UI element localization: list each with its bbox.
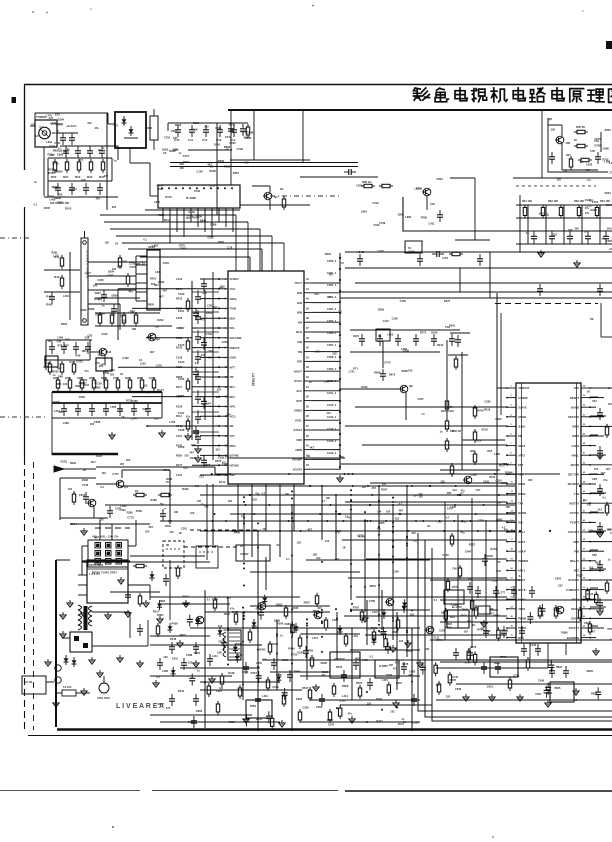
- svg-text:473: 473: [496, 560, 501, 564]
- svg-text:R573: R573: [470, 645, 477, 649]
- capacitor C403: [255, 694, 261, 706]
- capacitor bottom-right extra: [470, 598, 473, 612]
- wire bus into U101 top 2: [104, 221, 248, 223]
- svg-text:222: 222: [126, 458, 131, 462]
- svg-text:102: 102: [413, 538, 418, 542]
- svg-text:HVCC: HVCC: [294, 379, 302, 383]
- svg-text:100: 100: [219, 686, 224, 690]
- svg-text:C876: C876: [594, 137, 601, 141]
- wire right row y218: [516, 217, 612, 219]
- junction dot: [378, 554, 380, 556]
- svg-text:C176: C176: [54, 196, 61, 200]
- optocoupler U302 led square: [74, 636, 79, 641]
- junction U201 left pin26: [506, 637, 508, 639]
- svg-text:VDD2: VDD2: [572, 425, 580, 429]
- capacitor bottom-right extra: [578, 607, 581, 621]
- junction dot bus mid: [459, 494, 461, 496]
- wire right drop x112: [111, 158, 113, 181]
- wire U101 left pin3 feed: [200, 298, 219, 300]
- dashed service box: [196, 546, 218, 568]
- wire arrow line: [64, 468, 96, 470]
- resistor R302: [176, 565, 179, 579]
- svg-text:L596: L596: [162, 669, 168, 673]
- wire bundle h y205 short: [240, 204, 310, 206]
- svg-text:473: 473: [480, 627, 485, 631]
- resistor R503: [554, 605, 557, 619]
- svg-text:C530: C530: [446, 622, 453, 626]
- key cap dark fill 4: [107, 552, 110, 555]
- junction dot: [392, 522, 394, 524]
- svg-text:C734: C734: [206, 332, 213, 336]
- junction dot: [364, 511, 366, 513]
- junction dot extra: [455, 485, 457, 487]
- capacitor C91 U101 left: [195, 312, 201, 324]
- svg-text:D516: D516: [170, 637, 177, 641]
- svg-text:1K: 1K: [580, 160, 583, 164]
- IC U201 left pin 2: [507, 397, 516, 399]
- capacitor bottom extra: [207, 683, 210, 697]
- junction dot extra: [326, 520, 328, 522]
- junction dot bus mid: [249, 494, 251, 496]
- svg-text:R555: R555: [294, 669, 301, 673]
- wire U201 left conn 11: [344, 615, 507, 617]
- svg-text:C809: C809: [584, 621, 591, 625]
- wire into IF box: [107, 113, 109, 124]
- border: top frame line: [24, 84, 612, 86]
- svg-text:100: 100: [228, 500, 233, 503]
- wire vertical mid-right x486: [485, 520, 487, 636]
- capacitor C234 row: [431, 334, 437, 346]
- svg-text:C742: C742: [225, 135, 232, 139]
- svg-text:R481: R481: [165, 524, 172, 528]
- junction dot: [392, 555, 394, 557]
- svg-text:C216 .1: C216 .1: [327, 451, 337, 455]
- wire U101 left pin21 feed: [200, 474, 219, 476]
- resistor R409: [360, 609, 363, 623]
- junction U201 left pin1: [506, 397, 508, 399]
- IC U201 left pin 25: [507, 617, 516, 619]
- svg-text:R417: R417: [153, 610, 160, 614]
- component box FB1: [376, 329, 390, 341]
- IC U101 right pin 25 stub: [304, 311, 313, 313]
- svg-text:4K7: 4K7: [150, 350, 155, 354]
- svg-text:100: 100: [574, 227, 579, 231]
- junction dot extra: [513, 530, 515, 532]
- wire U101 pin23 to bus: [313, 292, 340, 294]
- junction dot bottom: [257, 666, 259, 668]
- svg-text:1K: 1K: [83, 468, 86, 472]
- IC U201 right pin 28: [581, 387, 590, 389]
- transistor Q2: [147, 333, 156, 341]
- svg-text:0.1: 0.1: [40, 125, 44, 129]
- wire x266 to driver: [265, 557, 267, 590]
- svg-text:D649: D649: [247, 131, 254, 135]
- svg-text:VDD: VDD: [296, 438, 302, 442]
- junction dot extra: [268, 504, 270, 506]
- svg-text:C11: C11: [188, 138, 194, 142]
- svg-text:C447: C447: [447, 507, 454, 511]
- wire J1-U4 h3: [88, 289, 136, 291]
- svg-text:222: 222: [332, 352, 337, 356]
- resistor R421: [216, 701, 219, 715]
- svg-text:SETVCO: SETVCO: [568, 415, 579, 419]
- junction dot bottom: [306, 618, 308, 620]
- svg-text:100: 100: [216, 395, 221, 399]
- svg-text:0.1: 0.1: [602, 236, 606, 240]
- box around Q8 cluster: [548, 118, 608, 172]
- svg-text:D897: D897: [194, 651, 201, 655]
- capacitor bottom extra: [191, 716, 197, 728]
- capacitor bottom extra: [338, 705, 341, 719]
- wire bus x340 vertical: [339, 253, 341, 470]
- svg-text:100: 100: [551, 127, 556, 131]
- svg-text:R43: R43: [48, 339, 53, 343]
- svg-text:47u: 47u: [263, 657, 268, 661]
- svg-text:103: 103: [95, 196, 100, 200]
- svg-text:BLKD: BLKD: [518, 597, 526, 601]
- IC U101 left pin 14 stub: [219, 405, 228, 407]
- IC U101 left pin 18 stub: [219, 445, 228, 447]
- arrow marker degauss: [54, 466, 64, 472]
- svg-text:L731: L731: [349, 369, 355, 373]
- IC U101 right pin 30 stub: [304, 360, 313, 362]
- svg-text:0.1: 0.1: [596, 560, 600, 564]
- resistor R310: [156, 623, 159, 637]
- junction dot extra: [475, 513, 477, 515]
- svg-text:4K7: 4K7: [91, 460, 96, 464]
- capacitor bottom extra: [315, 593, 318, 607]
- svg-text:NVCL: NVCL: [572, 453, 580, 457]
- wire y178-475 corner: [450, 177, 475, 179]
- wire vertical drop x244: [243, 514, 245, 560]
- svg-text:DEO: DEO: [230, 444, 237, 448]
- wire AC link: [46, 681, 54, 683]
- svg-text:R762: R762: [183, 160, 190, 164]
- svg-text:C75: C75: [95, 361, 100, 365]
- junction dot bottom: [242, 683, 244, 685]
- svg-text:R827: R827: [180, 633, 187, 637]
- capacitor C416: [169, 642, 175, 654]
- IC U101 left pin 10 stub: [219, 366, 228, 368]
- svg-text:1K: 1K: [587, 389, 590, 393]
- wire extra rail y682: [200, 681, 280, 683]
- junction dot extra: [454, 504, 456, 506]
- wire U4 pin 2: [136, 264, 147, 266]
- svg-text:PWM0: PWM0: [518, 617, 527, 621]
- wire box inner stub: [124, 137, 138, 139]
- flyback transformer T302 body: [228, 630, 241, 660]
- wire J1-U4 h2: [88, 275, 136, 277]
- junction dot extra: [352, 473, 354, 475]
- wire C95 link: [197, 390, 199, 392]
- svg-text:DEG: DEG: [70, 461, 77, 465]
- wire U201 pin16 right run: [590, 541, 612, 543]
- wire long y252: [345, 251, 612, 253]
- svg-text:C63: C63: [55, 112, 60, 116]
- wire vert link row x600: [599, 205, 601, 244]
- ground G72: [597, 608, 603, 615]
- connector J1 pin2 circle: [83, 319, 87, 323]
- svg-text:L515: L515: [382, 678, 388, 682]
- wire U101 long feed 2: [146, 337, 192, 339]
- wire bus into U101 top 4: [116, 235, 272, 237]
- capacitor bottom extra: [157, 600, 162, 610]
- junction dot bottom: [276, 635, 278, 637]
- svg-text:0.1: 0.1: [602, 496, 606, 500]
- transistor Q21: [257, 602, 266, 610]
- capacitor bottom-right extra: [497, 627, 500, 641]
- junction dot extra: [411, 485, 413, 487]
- wire h y467 ext: [96, 466, 215, 468]
- wire vrail x292: [291, 600, 293, 731]
- svg-text:222: 222: [553, 232, 558, 236]
- wire bus y197: [44, 196, 118, 198]
- wire U101 left pin9 feed: [200, 356, 219, 358]
- junction dot extra: [370, 520, 372, 522]
- svg-text:C85: C85: [592, 553, 597, 557]
- svg-text:TVIN: TVIN: [230, 307, 236, 311]
- wire U201 right conn 4: [590, 473, 598, 475]
- svg-text:R97: R97: [64, 344, 69, 348]
- wire U101 bottom pin run x280: [279, 495, 281, 557]
- capacitor bottom extra: [420, 663, 426, 675]
- ground symbol: [81, 610, 87, 617]
- svg-text:10K: 10K: [447, 491, 452, 495]
- wire rail y597: [150, 596, 300, 598]
- junction U201 left pin15: [506, 531, 508, 533]
- junction dot extra: [319, 513, 321, 515]
- svg-text:R174: R174: [157, 388, 164, 392]
- IC U101 right pin 24 stub: [304, 302, 313, 304]
- wire U101 left pin19 feed: [200, 454, 219, 456]
- svg-text:D547: D547: [95, 313, 102, 317]
- wire U201 pin21 right run: [590, 589, 604, 591]
- svg-text:V.DRV: V.DRV: [240, 552, 249, 556]
- junction dot extra: [288, 473, 290, 475]
- svg-text:10K: 10K: [312, 552, 317, 556]
- ground symbol power zone: [105, 612, 111, 619]
- svg-text:C362: C362: [207, 304, 214, 308]
- junction dot bottom: [227, 664, 229, 666]
- svg-text:0.1: 0.1: [168, 519, 172, 523]
- svg-text:SEARCH: SEARCH: [568, 482, 579, 486]
- title text: 彩色电视机电路电原理图 (hand-drawn strokes): [414, 88, 612, 102]
- svg-text:1n: 1n: [608, 386, 611, 390]
- junction dot: [291, 608, 293, 610]
- svg-text:103: 103: [68, 487, 73, 491]
- svg-text:R124: R124: [489, 475, 496, 479]
- svg-text:R264: R264: [590, 208, 597, 212]
- junction on x340 bus 6: [339, 323, 341, 325]
- svg-text:R825: R825: [591, 691, 598, 695]
- capacitor bottom-right extra: [446, 578, 449, 592]
- wire feed rail x118: [117, 289, 119, 340]
- svg-text:C588: C588: [186, 653, 193, 657]
- wire U101 left pin5 feed: [200, 317, 219, 319]
- svg-text:C61: C61: [430, 202, 435, 206]
- svg-text:R68: R68: [56, 382, 61, 386]
- capacitor C70b: [467, 582, 473, 594]
- wire v x170 drop: [169, 470, 171, 524]
- scan speck bottom: [112, 826, 114, 828]
- flyback T302 hatch: [229, 632, 240, 634]
- wire lc v x90: [89, 340, 91, 360]
- wire Q3 emitter drop: [104, 356, 106, 365]
- IC U201 right pin 31: [581, 416, 590, 418]
- resistor R414: [266, 677, 269, 691]
- junction dot extra: [307, 520, 309, 522]
- svg-text:C576: C576: [328, 722, 335, 726]
- svg-text:C409: C409: [122, 356, 129, 360]
- key cap dark fill 8: [117, 560, 120, 563]
- diode D1 in box: [122, 116, 127, 126]
- junction U201 left pin16: [506, 541, 508, 543]
- transistor Q8: [555, 136, 564, 144]
- wire U201 pin18 right run: [590, 560, 596, 562]
- svg-text:R692: R692: [182, 594, 189, 598]
- svg-text:47u: 47u: [84, 369, 89, 373]
- junction U201 left pin20: [506, 579, 508, 581]
- wire y458 mid: [230, 457, 345, 459]
- junction dot: [350, 489, 352, 491]
- junction dot extra: [300, 530, 302, 532]
- svg-text:473: 473: [183, 466, 188, 470]
- wire opto stubs: [62, 637, 70, 639]
- wire U101 long feed 4: [132, 396, 192, 398]
- resistor R420: [328, 709, 331, 723]
- svg-text:222: 222: [104, 369, 109, 373]
- svg-text:D386: D386: [88, 307, 95, 311]
- wire U201 left conn 8: [366, 558, 507, 560]
- junction U201 left pin12: [506, 502, 508, 504]
- svg-text:1n: 1n: [34, 180, 37, 184]
- keyboard block outline: [88, 540, 128, 567]
- capacitor C252: [417, 254, 423, 266]
- isolation barrier line 2: [425, 540, 612, 717]
- svg-text:D248: D248: [229, 123, 236, 127]
- wire br y580: [430, 579, 520, 581]
- junction dot: [406, 629, 408, 631]
- svg-text:VIF: VIF: [230, 375, 235, 379]
- junction U201 left pin2: [506, 406, 508, 408]
- wire bus y418: [52, 417, 162, 419]
- capacitor bottom extra: [262, 595, 267, 605]
- svg-text:C707: C707: [85, 271, 92, 275]
- svg-text:0.1: 0.1: [434, 598, 438, 602]
- junction dot: [378, 584, 380, 586]
- svg-text:R417: R417: [244, 135, 251, 139]
- svg-text:C86: C86: [85, 336, 90, 340]
- resistor R63 ladder top: [92, 377, 95, 391]
- connector box AV1: [96, 358, 112, 371]
- capacitor C334: [603, 232, 609, 244]
- svg-text:C236: C236: [442, 553, 449, 557]
- junction dot bus mid: [279, 530, 281, 532]
- svg-text:L310: L310: [262, 694, 268, 698]
- svg-text:104: 104: [169, 531, 174, 534]
- wire long y283: [355, 282, 612, 284]
- keyboard under-bar: [82, 560, 130, 562]
- wire tuner top: [35, 112, 108, 114]
- svg-text:D333: D333: [296, 697, 303, 701]
- svg-text:VIF2: VIF2: [518, 473, 524, 477]
- svg-text:RIN: RIN: [297, 291, 302, 295]
- svg-text:C766: C766: [369, 599, 376, 603]
- svg-text:4K7: 4K7: [154, 283, 159, 287]
- junction dot extra: [453, 520, 455, 522]
- junction dot bus mid: [339, 513, 341, 515]
- svg-text:HOUT: HOUT: [294, 369, 302, 373]
- svg-text:C538: C538: [455, 687, 462, 691]
- wire U101 left pin1 feed: [200, 278, 219, 280]
- svg-text:C256: C256: [356, 183, 363, 187]
- border: inner left frame line (dashed): [33, 462, 35, 730]
- IC U101 left pin 1 stub: [219, 278, 228, 280]
- svg-text:D448: D448: [228, 671, 235, 675]
- IC U101 right pin 29 stub: [304, 351, 313, 353]
- svg-text:10K: 10K: [193, 128, 198, 132]
- svg-text:VSYNC: VSYNC: [230, 454, 240, 458]
- capacitor bottom-right extra: [527, 612, 533, 624]
- capacitor Ctl0: [63, 146, 69, 158]
- svg-text:D578: D578: [215, 459, 222, 463]
- border: page bottom rule right: [345, 790, 612, 792]
- wire h y518: [60, 517, 108, 519]
- wire extra rail y604: [160, 603, 230, 605]
- wire Q6 base: [340, 388, 399, 390]
- svg-text:473: 473: [395, 660, 400, 664]
- diode D41: [252, 619, 257, 629]
- svg-text:0.1: 0.1: [195, 361, 199, 365]
- capacitor C10 on y123 bus: [175, 125, 181, 137]
- wire IF pin drop 10: [232, 217, 234, 232]
- wire tuner bottom stub: [43, 147, 45, 158]
- junction dot: [335, 511, 337, 513]
- IC U201 left pin 17: [507, 541, 516, 543]
- svg-text:C101: C101: [176, 326, 183, 330]
- wire power v x148: [147, 620, 149, 646]
- wire heavy vertical x56: [55, 560, 57, 727]
- svg-text:47u: 47u: [255, 492, 260, 495]
- capacitor bottom-right extra: [595, 687, 601, 699]
- capacitor C97 U101 left: [195, 432, 201, 444]
- resistor R45: [118, 255, 121, 269]
- ground symbol power zone: [67, 600, 73, 607]
- junction dot: [257, 607, 259, 609]
- svg-text:SLAVE: SLAVE: [518, 405, 527, 409]
- svg-text:62K: 62K: [101, 376, 106, 380]
- svg-text:R444: R444: [178, 689, 185, 693]
- svg-text:C779: C779: [384, 360, 391, 364]
- capacitor bottom-right extra: [539, 604, 545, 616]
- svg-text:100: 100: [386, 510, 391, 514]
- svg-text:473: 473: [101, 363, 106, 367]
- svg-text:D297: D297: [95, 291, 102, 295]
- wire lc y360: [44, 359, 90, 361]
- wire U201 pin4 right run: [590, 425, 612, 427]
- junction on x340 bus 0: [339, 257, 341, 259]
- svg-text:AVSTAT: AVSTAT: [569, 501, 580, 505]
- wire long y178 right: [513, 177, 612, 179]
- wire U201 pin0 right run: [590, 387, 612, 389]
- junction U201 left pin8: [506, 464, 508, 466]
- wire vertical drop x336: [335, 495, 337, 560]
- capacitor C401: [221, 638, 227, 650]
- capacitor bottom-right extra: [467, 648, 470, 662]
- svg-text:C168: C168: [392, 570, 399, 574]
- wire U4 pin 6: [136, 300, 147, 302]
- svg-text:52K: 52K: [89, 376, 94, 380]
